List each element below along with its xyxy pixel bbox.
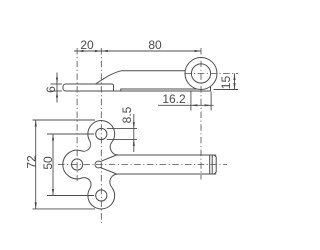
- centerline arm horizontal: [58, 164, 227, 166]
- left hole: [72, 159, 83, 170]
- arrow 80 left: [101, 50, 108, 52]
- arrow 20 left: [77, 50, 84, 52]
- arm bottom edge: [117, 173, 217, 175]
- arrow 15 bottom: [233, 83, 235, 90]
- dim 20/80 line: [74, 50, 201, 52]
- arrow 16.2 right: [205, 104, 212, 106]
- fillet top-left: [82, 141, 91, 152]
- centerline left hole axis: [76, 48, 78, 181]
- arrow 50 bottom: [52, 189, 54, 196]
- ramp curve: [96, 71, 122, 84]
- arrow 15 top: [233, 74, 235, 81]
- arrow 50 top: [52, 134, 54, 141]
- arm groove line 2: [211, 155, 213, 174]
- fillet bottom-right: [110, 174, 119, 187]
- svg-text:6: 6: [44, 86, 58, 93]
- dim 72 extension lines: [33, 119, 96, 121]
- arm top line: [121, 70, 185, 72]
- arm underside line: [121, 89, 197, 91]
- centerline main hole axis: [100, 48, 102, 223]
- plate top edge: [66, 83, 113, 85]
- arrow 8.5 top: [133, 122, 135, 129]
- arrow 80 right: [195, 50, 202, 52]
- fillet bottom-left: [82, 178, 92, 189]
- top hole: [96, 128, 107, 139]
- svg-text:8.5: 8.5: [120, 106, 134, 123]
- plate left end: [63, 84, 66, 91]
- arrow 16.2 left: [191, 104, 198, 106]
- arrow 6 bottom: [56, 91, 58, 98]
- arrow 72 bottom: [35, 202, 37, 209]
- dim 50 extension lines: [47, 133, 94, 135]
- arm tapered nose: [95, 155, 116, 174]
- arrow 6 top: [56, 78, 58, 85]
- dim 15 lower extension: [214, 89, 239, 91]
- dim 8.5 extension lines: [107, 128, 137, 130]
- dim 72 line: [35, 120, 37, 209]
- dim 6 line: [56, 73, 58, 103]
- arm groove line 1: [209, 155, 211, 174]
- arm end cap: [214, 155, 216, 174]
- part bottom edge: [66, 90, 211, 92]
- eye hole circle: [191, 64, 210, 83]
- svg-text:20: 20: [80, 38, 94, 52]
- dim 50 line: [52, 134, 54, 196]
- arrow 20 right: [95, 50, 102, 52]
- svg-text:16.2: 16.2: [162, 92, 186, 106]
- bottom hole: [96, 190, 107, 201]
- arrow 72 top: [35, 120, 37, 127]
- centerline eye horizontal: [185, 73, 238, 75]
- svg-text:15: 15: [219, 76, 233, 90]
- dim 15 line: [234, 74, 236, 90]
- arrow 8.5 bottom: [133, 139, 135, 146]
- fillet top-right: [110, 142, 118, 155]
- left lobe arc: [63, 150, 82, 179]
- dim 8.5 line: [133, 114, 135, 152]
- top lobe arc: [88, 121, 115, 143]
- dim 16.2 line: [158, 104, 214, 106]
- boss lower-right vertical: [210, 87, 212, 92]
- bottom lobe arc: [88, 187, 115, 209]
- dim 16.2 extension lines: [190, 92, 192, 111]
- svg-text:72: 72: [24, 155, 38, 169]
- centerline eye axis vertical: [200, 48, 202, 180]
- plate right step: [112, 84, 114, 91]
- eye boss outer circle: [185, 58, 217, 90]
- svg-text:80: 80: [148, 38, 162, 52]
- dim 6 extension lines: [51, 83, 63, 85]
- svg-text:50: 50: [41, 156, 55, 170]
- arm top edge: [117, 154, 217, 156]
